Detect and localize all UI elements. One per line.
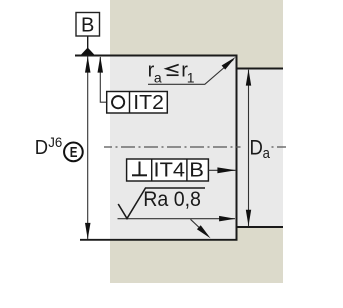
svg-text:a: a — [154, 70, 162, 86]
bore top edge line — [75, 55, 238, 57]
shoulder bottom edge line — [237, 226, 284, 228]
svg-text:1: 1 — [187, 70, 195, 86]
perpendicularity tolerance frame — [127, 159, 209, 181]
fillet note underline leader — [148, 60, 234, 85]
envelope symbol E circle — [64, 143, 83, 162]
svg-text:a: a — [263, 146, 271, 162]
datum B box — [76, 13, 100, 37]
dimension D arrow up — [85, 56, 91, 72]
svg-text:D: D — [35, 137, 48, 159]
centerline right stub — [272, 146, 287, 148]
shoulder face vertical edge — [236, 55, 238, 241]
svg-text:Ra 0,8: Ra 0,8 — [143, 189, 201, 212]
surface roughness branch arrow — [197, 225, 211, 238]
roundness leader arrow — [98, 56, 104, 72]
perpendicularity leader — [208, 169, 236, 171]
surface roughness symbol check — [118, 188, 205, 219]
housing section material top (beige) — [110, 0, 283, 68]
roundness tolerance frame — [107, 92, 168, 114]
svg-text:D: D — [250, 136, 263, 160]
housing section material bottom (beige) — [110, 228, 283, 283]
surface roughness leader arrow right — [219, 216, 235, 222]
svg-text:B: B — [81, 15, 94, 37]
dimension Da arrow down — [246, 210, 251, 226]
perpendicularity symbol — [132, 174, 147, 176]
roundness leader — [100, 57, 106, 102]
svg-text:J6: J6 — [48, 135, 62, 150]
dimension D line — [87, 57, 89, 240]
datum B triangle — [81, 48, 95, 55]
dimension Da arrow up — [246, 69, 251, 85]
fillet note arrow — [222, 57, 236, 70]
shoulder top edge line — [237, 68, 284, 70]
centerline (dash-dot axis) — [104, 146, 241, 148]
svg-text:B: B — [189, 159, 204, 181]
svg-text:IT2: IT2 — [133, 92, 164, 114]
dimension Da line — [248, 70, 250, 226]
svg-text:E: E — [70, 144, 78, 161]
datum B stem — [87, 36, 89, 49]
svg-text:IT4: IT4 — [154, 159, 186, 181]
surface roughness branch leader — [191, 219, 206, 233]
bore inner surface (grey) — [110, 55, 283, 241]
perpendicularity leader arrow — [217, 167, 236, 173]
bore bottom edge line — [80, 239, 238, 241]
surface roughness leader — [118, 218, 236, 220]
dimension D arrow down — [85, 223, 91, 239]
roundness symbol — [112, 96, 124, 108]
